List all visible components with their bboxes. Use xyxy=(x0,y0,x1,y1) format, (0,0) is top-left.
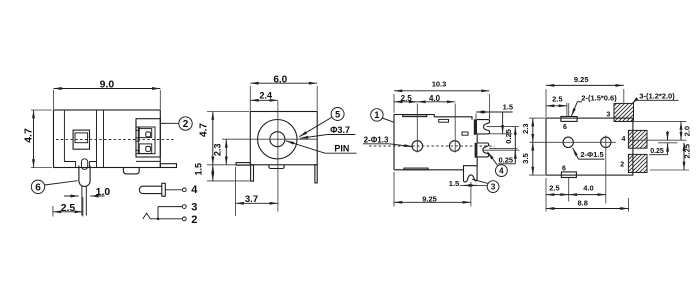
connector block outer xyxy=(136,119,160,157)
svg-text:2: 2 xyxy=(191,214,197,226)
balloon 5 xyxy=(331,108,344,121)
svg-text:2.5: 2.5 xyxy=(549,183,559,192)
dim 4.0 bottom V4 xyxy=(569,194,606,196)
small slot rect xyxy=(439,119,449,122)
svg-text:6: 6 xyxy=(35,182,41,193)
dim 10.3 xyxy=(393,94,395,113)
right leg xyxy=(315,165,317,183)
upper prong fork xyxy=(477,120,490,134)
barrel outer circle xyxy=(258,120,297,159)
ext pad3 bottom xyxy=(634,120,687,122)
pad 6 bottom xyxy=(561,172,576,178)
prong lower xyxy=(139,144,152,154)
svg-text:8.8: 8.8 xyxy=(577,199,587,208)
body outline V3 xyxy=(394,115,472,170)
pcb outline xyxy=(546,118,633,175)
svg-text:2.4: 2.4 xyxy=(259,91,272,101)
hole circle left xyxy=(563,137,573,147)
svg-text:1.5: 1.5 xyxy=(193,163,203,176)
right edge between prongs xyxy=(476,135,478,143)
svg-text:3: 3 xyxy=(491,183,496,192)
right edge below prongs xyxy=(476,158,478,166)
tab c xyxy=(136,150,139,153)
balloon 2 xyxy=(179,117,192,130)
switch housing inner xyxy=(75,133,88,143)
hole circle A xyxy=(412,141,423,152)
right foot xyxy=(160,164,176,168)
svg-text:4.7: 4.7 xyxy=(199,123,210,137)
dim 1.0 xyxy=(64,195,79,197)
svg-text:6: 6 xyxy=(562,166,566,173)
center pin below body xyxy=(79,166,90,187)
balloon 4 V3 xyxy=(496,165,508,177)
dim 3.5 V4 xyxy=(529,174,545,176)
inner wall left xyxy=(63,110,65,162)
svg-text:1: 1 xyxy=(374,110,379,120)
prong upper xyxy=(139,129,152,138)
svg-text:4.0: 4.0 xyxy=(429,94,441,103)
dim 9.0 xyxy=(53,90,55,109)
vertical line pad6 bottom xyxy=(568,178,570,202)
body outline V2 xyxy=(250,112,317,165)
slot capsule xyxy=(81,159,87,170)
pin symbol 2 xyxy=(143,213,183,219)
svg-text:4: 4 xyxy=(499,167,504,176)
svg-text:9.25: 9.25 xyxy=(422,194,437,203)
svg-text:Φ3.7: Φ3.7 xyxy=(330,125,350,135)
svg-text:6: 6 xyxy=(563,124,567,131)
dim 2.5 xyxy=(52,206,54,217)
svg-text:3: 3 xyxy=(191,202,197,214)
bottom slot bar xyxy=(404,168,428,170)
center bottom tab xyxy=(269,165,284,169)
balloon 1 xyxy=(371,109,383,121)
svg-text:1.0: 1.0 xyxy=(96,187,111,198)
svg-text:2.3: 2.3 xyxy=(521,123,530,133)
mid wall pair xyxy=(96,110,98,168)
ext hole center short xyxy=(658,142,678,144)
bottom round tab xyxy=(123,168,139,174)
dim 1.5 top right xyxy=(475,114,477,120)
dim 9.25 xyxy=(393,172,395,207)
shelf line xyxy=(136,160,160,162)
svg-text:3.5: 3.5 xyxy=(521,153,530,163)
dim 9.25 V4 xyxy=(545,89,547,117)
lower prong fork xyxy=(477,143,488,157)
svg-text:5: 5 xyxy=(335,109,340,119)
hole circle B xyxy=(449,141,460,152)
svg-text:2-(1.5*0.6): 2-(1.5*0.6) xyxy=(581,94,617,103)
svg-text:0.25: 0.25 xyxy=(650,148,664,155)
cavity floor left xyxy=(64,162,96,168)
bottom right leg xyxy=(464,166,478,182)
svg-text:0.25: 0.25 xyxy=(498,156,513,165)
pin symbol 3 xyxy=(158,206,182,208)
svg-text:4.7: 4.7 xyxy=(24,128,35,143)
dim 6.0 xyxy=(249,86,251,111)
svg-text:2-Φ1.5: 2-Φ1.5 xyxy=(580,150,603,159)
switch housing outer xyxy=(73,130,89,149)
small slot rect 2 xyxy=(462,132,468,135)
svg-text:3.7: 3.7 xyxy=(245,194,258,205)
svg-text:1.5: 1.5 xyxy=(503,103,513,112)
svg-text:2.5: 2.5 xyxy=(61,203,76,214)
dim 2.5 V3 xyxy=(394,101,417,103)
svg-text:2: 2 xyxy=(183,119,189,130)
ext pad4 center xyxy=(628,139,686,141)
svg-text:10.3: 10.3 xyxy=(432,79,447,88)
body outline V1 xyxy=(54,110,161,168)
dim 4.7 xyxy=(31,109,52,111)
dim 1.5 V2 xyxy=(207,180,251,182)
svg-text:2.5: 2.5 xyxy=(552,95,562,104)
pad 3 hatched xyxy=(614,103,634,121)
svg-text:4: 4 xyxy=(191,184,198,196)
svg-text:9.25: 9.25 xyxy=(574,75,589,84)
center dashed line V3 xyxy=(369,145,495,147)
svg-text:2-Φ1.3: 2-Φ1.3 xyxy=(364,136,389,145)
pin lead wires xyxy=(81,186,83,215)
balloon 6 xyxy=(31,180,44,193)
pad 4 hatched xyxy=(628,130,647,148)
left leg xyxy=(251,165,254,181)
tab b xyxy=(136,138,139,141)
pad 6 top xyxy=(561,117,577,122)
vertical line pad6 top xyxy=(568,103,570,116)
dim 4.7 V2 xyxy=(207,111,249,113)
dim 2.4 xyxy=(250,99,278,101)
left side tab xyxy=(236,163,250,166)
connector block inner xyxy=(138,127,155,154)
svg-text:PIN: PIN xyxy=(334,144,349,154)
svg-text:4.0: 4.0 xyxy=(583,183,593,192)
dim 8.8 xyxy=(545,178,547,212)
dim 0.25 arrows V4 xyxy=(667,131,669,140)
lower prong bracket xyxy=(475,143,478,158)
dim 2.5 top V4 xyxy=(566,103,568,116)
dim 3.7 xyxy=(235,167,237,216)
vertical line right circle xyxy=(605,136,607,204)
svg-text:2: 2 xyxy=(620,161,624,168)
pin symbol 4 xyxy=(139,186,162,193)
dim 4.0 V3 xyxy=(417,101,455,103)
pin inner circle xyxy=(270,132,285,147)
svg-text:4: 4 xyxy=(622,136,626,143)
svg-text:3-(1.2*2.0): 3-(1.2*2.0) xyxy=(639,91,675,100)
svg-text:2.5: 2.5 xyxy=(401,94,413,103)
center dashed line V1 xyxy=(56,139,174,141)
svg-text:3: 3 xyxy=(606,112,610,119)
horizontal center line xyxy=(530,141,617,143)
dim 0.25 rotated xyxy=(487,126,519,128)
vertical center line xyxy=(277,101,279,212)
svg-text:9.0: 9.0 xyxy=(100,79,115,90)
dim 2.25 xyxy=(650,169,689,171)
upper prong bracket xyxy=(474,119,477,135)
balloon 3 V3 xyxy=(487,181,499,193)
tab a xyxy=(136,127,139,130)
svg-text:2.3: 2.3 xyxy=(213,144,223,157)
svg-text:2.25: 2.25 xyxy=(682,144,691,159)
dim 2.0 xyxy=(680,121,682,140)
pad 2 hatched xyxy=(628,154,647,172)
hole circle right xyxy=(601,137,611,147)
svg-text:0.25: 0.25 xyxy=(504,129,513,144)
dim 2.3 V2 xyxy=(222,138,317,140)
dim 2.5 bottom V4 xyxy=(546,194,569,196)
top slot bar xyxy=(403,115,427,117)
dim 1.5 bottom xyxy=(460,184,488,186)
svg-text:6.0: 6.0 xyxy=(273,75,287,86)
svg-text:1.5: 1.5 xyxy=(449,179,459,188)
svg-text:2.0: 2.0 xyxy=(682,126,691,136)
dim 2.3 V4 xyxy=(529,117,545,119)
